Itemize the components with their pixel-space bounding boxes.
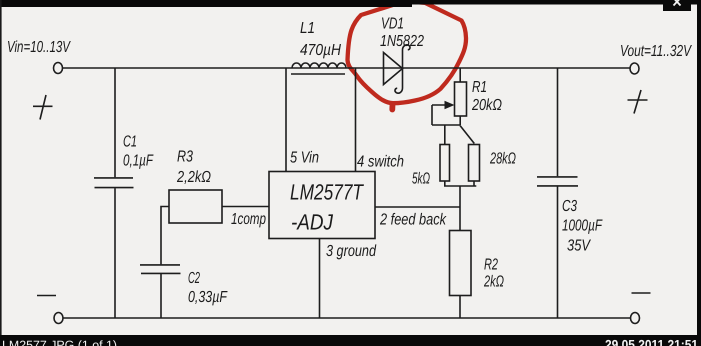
svg-text:VD1: VD1 [381,16,404,33]
wire C1 upper [114,68,116,177]
wire bottom rail [63,317,631,319]
capacitor C1 [94,178,134,188]
potentiometer R1 body [455,82,467,116]
svg-text:35V: 35V [567,238,591,255]
wire pin1 comp [222,206,269,208]
svg-text:4 switch: 4 switch [357,154,404,171]
resistor 5k body [440,145,450,182]
svg-text:28kΩ: 28kΩ [489,151,516,168]
wire 5k top stub [444,125,446,145]
terminal Vout- [631,313,640,324]
wire top rail [63,67,631,69]
svg-text:20kΩ: 20kΩ [471,97,502,114]
wire pin3 ground [319,239,321,319]
svg-text:R1: R1 [472,79,487,96]
red annotation tail [389,105,395,110]
svg-text:29.05.2011 21:51: 29.05.2011 21:51 [605,337,698,346]
svg-text:1comp: 1comp [231,211,266,228]
svg-text:2,2kΩ: 2,2kΩ [176,169,211,186]
wire 28k bottom stub [473,181,475,186]
wire 5k bottom stub [444,181,446,186]
diode VD1 schottky cathode [395,45,410,93]
svg-text:C1: C1 [123,134,137,151]
wire R1 wiper line [432,105,460,125]
wire C3 upper [557,68,559,176]
wire diagonal wiper to 28k [460,126,474,144]
terminal Vin- [54,313,63,324]
terminal Vin+ [54,63,63,74]
close button X [663,0,691,11]
svg-text:C3: C3 [562,198,577,215]
wire joining bar under divider [444,185,476,187]
terminal Vout+ [630,63,639,74]
svg-text:-ADJ: -ADJ [291,210,334,235]
window bottom status bar [0,335,701,346]
svg-text:1N5822: 1N5822 [380,33,424,50]
svg-text:1000µF: 1000µF [562,218,603,235]
diode VD1 triangle [384,53,403,85]
svg-text:2kΩ: 2kΩ [483,274,504,291]
svg-text:R2: R2 [484,257,498,274]
potentiometer R1 arrow head [445,101,455,109]
wire R1 bottom stub [459,116,461,125]
IC U1 LM2577T box [269,172,375,239]
svg-text:2 feed back: 2 feed back [379,212,447,229]
wire C2 lower [160,274,162,318]
window left edge [0,0,2,346]
wire C3 lower [557,187,559,319]
svg-text:0,1µF: 0,1µF [123,153,154,170]
minus sign bottom right [632,292,651,294]
window right edge [697,0,701,346]
plus sign at Vin [33,95,53,120]
svg-text:Vin=10..13V: Vin=10..13V [7,39,71,56]
wire R2 bottom [459,296,461,319]
svg-text:LM2577T: LM2577T [290,180,364,205]
wire pin5 Vin [285,68,287,172]
plus sign at Vout [628,90,648,114]
wire R1 top stub [459,68,461,82]
minus sign bottom left [37,295,56,297]
resistor 28k body [469,145,480,182]
svg-text:Vout=11..32V: Vout=11..32V [620,43,692,60]
wire C1 lower [114,188,116,318]
svg-text:0,33µF: 0,33µF [188,289,228,306]
window top bar [0,0,701,5]
red annotation circle around VD1 [348,2,467,103]
svg-text:5kΩ: 5kΩ [412,171,430,188]
wire pin2 feedback horizontal [375,206,460,208]
wire pin4 switch [355,68,357,172]
inductor L1 [291,63,346,74]
wire feedback vertical [459,186,461,231]
wire R3 left [161,207,169,265]
svg-text:C2: C2 [188,270,200,287]
capacitor C2 [140,265,181,274]
svg-text:470µH: 470µH [300,42,341,59]
svg-text:R3: R3 [177,149,193,166]
resistor R2 body [450,231,472,296]
resistor R3 body [169,190,222,223]
svg-text:5 Vin: 5 Vin [290,150,319,167]
svg-text:LM2577.JPG (1 of 1): LM2577.JPG (1 of 1) [2,338,117,346]
capacitor C3 [537,177,578,186]
svg-text:3 ground: 3 ground [326,243,377,260]
svg-text:L1: L1 [300,20,315,37]
